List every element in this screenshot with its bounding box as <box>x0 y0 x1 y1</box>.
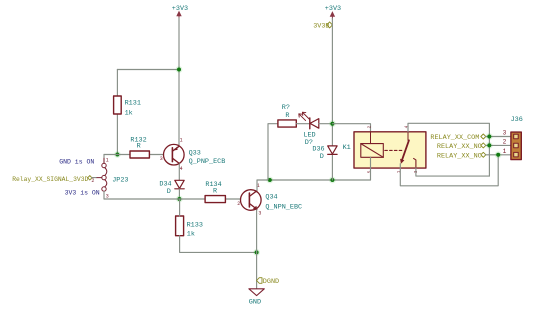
wire Q34 collector riser <box>257 180 371 190</box>
LED D? <box>299 112 319 147</box>
svg-text:R?: R? <box>282 104 290 112</box>
power +3V3 right <box>325 5 341 19</box>
svg-text:GND: GND <box>249 299 261 307</box>
svg-text:5: 5 <box>367 170 372 173</box>
node junction NC line <box>495 151 502 158</box>
svg-text:1: 1 <box>503 148 507 155</box>
svg-text:DGND: DGND <box>263 278 279 286</box>
wire +3V3 left vertical rail <box>178 18 180 145</box>
wire D34 to bottom rail <box>178 189 180 199</box>
node junction base line / R131 <box>114 151 121 158</box>
hierarchical label 3V3D <box>313 22 332 31</box>
svg-text:Q_PNP_ECB: Q_PNP_ECB <box>189 158 226 166</box>
svg-text:2: 2 <box>237 201 240 207</box>
node junction NO line <box>486 142 493 149</box>
transistor Q34 Q_NPN_EBC <box>237 183 302 216</box>
wire 3V3D vertical rail <box>331 19 333 181</box>
hierarchical label DGND <box>257 278 280 287</box>
svg-text:GND is ON: GND is ON <box>59 159 94 166</box>
wire Q33 collector to D34 <box>178 164 180 181</box>
diode D34 <box>159 180 184 196</box>
wire left vertical through R131 <box>116 70 118 155</box>
node junction GND rail / Q34 emitter <box>253 249 260 256</box>
svg-text:Q33: Q33 <box>189 149 201 157</box>
svg-text:4: 4 <box>405 125 410 128</box>
svg-text:+3V3: +3V3 <box>325 5 341 13</box>
svg-text:3V3D: 3V3D <box>313 23 329 31</box>
svg-text:1: 1 <box>180 137 183 143</box>
svg-text:RELAY_XX_NO: RELAY_XX_NO <box>437 143 482 151</box>
wire LED branch vertical <box>268 124 278 180</box>
svg-text:4: 4 <box>180 166 183 172</box>
hierarchical label Relay_XX_SIGNAL_3V3D <box>12 176 96 183</box>
svg-text:J36: J36 <box>511 116 523 124</box>
svg-text:RELAY_XX_COM: RELAY_XX_COM <box>430 134 479 142</box>
svg-text:R: R <box>137 143 141 151</box>
wire relay pin1 to NC column <box>400 155 498 186</box>
svg-text:3V3 is ON: 3V3 is ON <box>65 189 100 196</box>
wire COM line to J36 pin3 <box>486 136 511 138</box>
node junction at +3V3 rail / R131 branch <box>176 66 183 73</box>
wire LED to 3V3D rail <box>319 123 333 125</box>
svg-text:R: R <box>285 112 289 120</box>
hierarchical label RELAY_XX_COM <box>430 134 485 142</box>
node junction collector rail / LED branch <box>266 177 273 184</box>
resistor R134 <box>205 181 225 203</box>
svg-text:JP23: JP23 <box>112 176 128 184</box>
svg-text:3: 3 <box>258 210 261 216</box>
hierarchical label RELAY_XX_NC <box>437 152 486 160</box>
resistor R133 <box>176 216 203 238</box>
svg-text:1k: 1k <box>125 110 133 118</box>
svg-text:+3V3: +3V3 <box>172 5 188 13</box>
wire coil top feed <box>332 124 370 133</box>
svg-text:Q34: Q34 <box>265 194 277 202</box>
svg-text:1k: 1k <box>187 230 195 238</box>
wire coil bottom pin5 to collector rail <box>370 157 372 180</box>
svg-text:3: 3 <box>414 170 419 173</box>
transistor Q33 Q_PNP_ECB <box>160 137 226 171</box>
svg-text:2: 2 <box>91 178 94 184</box>
svg-text:R: R <box>213 188 217 196</box>
node junction 3V3D rail / LED / coil wire <box>329 120 336 127</box>
svg-text:2: 2 <box>367 125 372 128</box>
wire R133 top and bottom <box>180 199 257 252</box>
svg-text:3: 3 <box>160 156 163 162</box>
node junction bottom rail / D34 / R133 <box>176 196 183 203</box>
wire top horizontal to R131 branch <box>117 69 179 71</box>
connector J36 <box>503 116 523 159</box>
wire bottom rail jumper pin3 to Q34 base <box>104 198 241 200</box>
svg-text:Q_NPN_EBC: Q_NPN_EBC <box>265 203 302 211</box>
svg-text:D: D <box>167 188 171 196</box>
node junction COM line <box>486 133 493 140</box>
wire base line jumper to Q33 <box>104 154 164 156</box>
svg-text:RELAY_XX_NC: RELAY_XX_NC <box>437 152 482 160</box>
svg-text:2: 2 <box>503 139 507 146</box>
svg-text:D: D <box>320 153 324 161</box>
svg-text:R133: R133 <box>187 222 203 230</box>
wire relay pin4 to COM column <box>408 123 489 176</box>
hierarchical label RELAY_XX_NO <box>437 143 486 151</box>
wire Q34 emitter down to GND <box>256 210 258 289</box>
relay K1 <box>343 125 426 173</box>
wire R? to LED <box>296 123 309 125</box>
svg-text:1: 1 <box>106 157 109 163</box>
resistor R132 <box>130 136 149 158</box>
power +3V3 left <box>172 5 188 19</box>
wire relay pin3 to NO column <box>416 168 490 176</box>
node junction collector rail / D36 <box>329 177 336 184</box>
svg-text:3: 3 <box>106 194 109 200</box>
jumper JP23 <box>91 157 128 199</box>
wire jumper pin3 drop <box>103 191 105 199</box>
diode D36 <box>312 145 337 161</box>
resistor R? <box>278 104 296 127</box>
svg-text:Relay_XX_SIGNAL_3V3D: Relay_XX_SIGNAL_3V3D <box>12 176 88 183</box>
ground GND <box>249 289 264 307</box>
svg-text:1: 1 <box>397 170 402 173</box>
wire NC line to J36 pin1 <box>486 154 511 156</box>
wire NO line to J36 pin2 <box>486 144 511 146</box>
svg-text:R131: R131 <box>125 99 141 107</box>
wire jumper pin1 riser <box>103 155 105 164</box>
svg-text:3: 3 <box>503 129 507 136</box>
resistor R131 <box>114 96 141 118</box>
svg-text:K1: K1 <box>343 144 351 152</box>
